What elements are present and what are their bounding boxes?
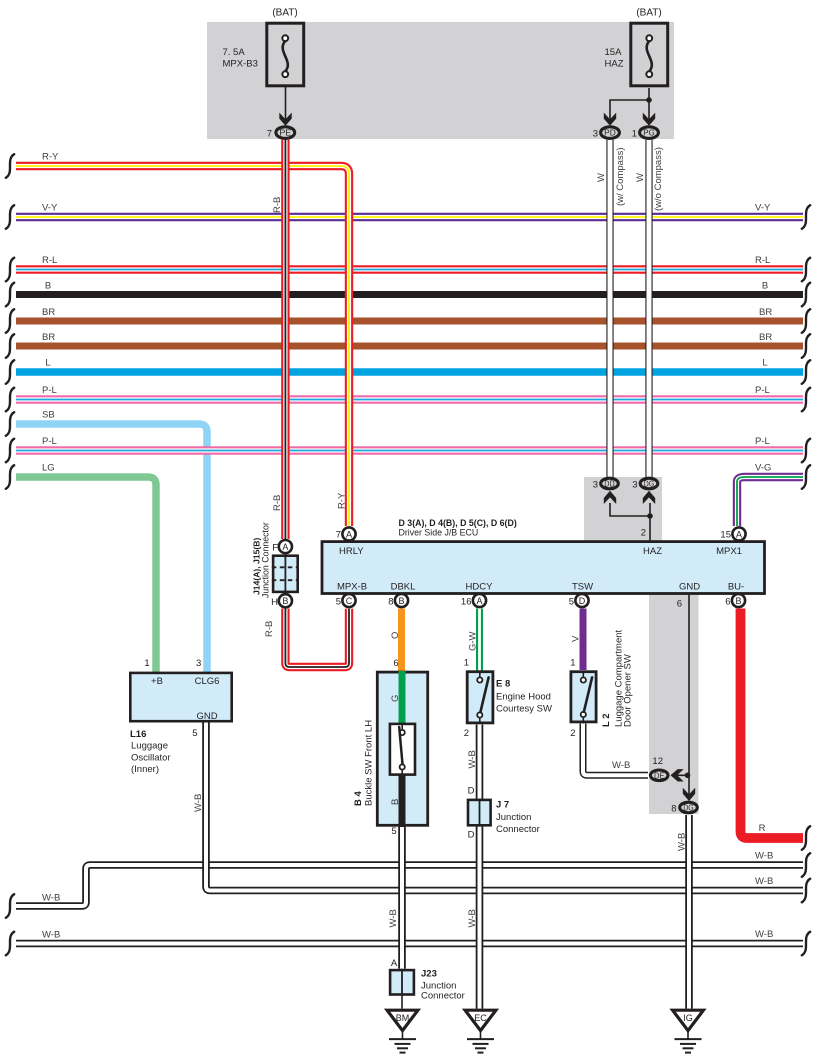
svg-text:(w/o Compass): (w/o Compass) bbox=[653, 147, 664, 211]
svg-text:1: 1 bbox=[632, 129, 637, 140]
svg-text:EC: EC bbox=[474, 1013, 487, 1023]
svg-text:D 3(A), D 4(B), D 5(C), D 6(D): D 3(A), D 4(B), D 5(C), D 6(D) bbox=[399, 518, 517, 528]
component L16 Luggage Oscillator (Inner) bbox=[130, 658, 232, 775]
svg-text:W: W bbox=[596, 173, 607, 182]
svg-text:15: 15 bbox=[720, 530, 731, 541]
svg-text:V: V bbox=[571, 635, 582, 642]
svg-text:C: C bbox=[346, 596, 353, 606]
svg-text:5: 5 bbox=[192, 728, 197, 739]
svg-text:R-Y: R-Y bbox=[337, 492, 348, 509]
svg-text:MPX1: MPX1 bbox=[716, 546, 742, 557]
svg-text:G: G bbox=[390, 695, 401, 702]
svg-text:PG: PG bbox=[643, 129, 655, 138]
svg-text:3: 3 bbox=[196, 658, 201, 669]
ECU pin 5 C (MPX-B) bbox=[336, 594, 356, 608]
wire P-L horizontal 2 bbox=[16, 446, 803, 454]
svg-text:Buckle SW Front LH: Buckle SW Front LH bbox=[364, 720, 375, 806]
svg-text:TSW: TSW bbox=[572, 582, 593, 593]
connector 8 DG bbox=[671, 788, 697, 815]
svg-text:8: 8 bbox=[388, 597, 393, 608]
wire R-Y to ECU pin 7(A) bbox=[16, 166, 349, 526]
wire V from TSW 5(D) to L2 pin 1 bbox=[580, 609, 587, 671]
wire W-B horizontal A (stepped) bbox=[16, 865, 803, 906]
svg-text:V-Y: V-Y bbox=[755, 203, 771, 214]
ECU pin 7 A (HRLY) bbox=[336, 527, 356, 540]
svg-text:BM: BM bbox=[396, 1013, 410, 1023]
svg-text:GND: GND bbox=[679, 582, 700, 593]
svg-text:L16: L16 bbox=[130, 729, 146, 740]
svg-text:A: A bbox=[391, 958, 398, 969]
wire R from BU- 6(B) to right edge bbox=[741, 609, 804, 839]
ground IG bbox=[673, 1010, 704, 1052]
svg-text:G-W: G-W bbox=[468, 631, 479, 651]
svg-text:Connector: Connector bbox=[421, 991, 465, 1002]
svg-text:W-B: W-B bbox=[755, 876, 773, 887]
svg-text:R-L: R-L bbox=[42, 255, 57, 266]
wire LG to L16 pin 1 bbox=[16, 477, 156, 672]
fuse 15A HAZ bbox=[604, 8, 668, 126]
component L2 Luggage Compartment Door Opener SW bbox=[570, 629, 633, 739]
wire R-B vertical from PE to J14 bbox=[281, 140, 289, 539]
wire L horizontal bbox=[16, 368, 803, 376]
svg-text:1: 1 bbox=[144, 658, 149, 669]
ground BM bbox=[387, 1010, 418, 1052]
svg-text:Junction Connector: Junction Connector bbox=[261, 522, 271, 598]
svg-text:R-B: R-B bbox=[264, 621, 275, 637]
svg-text:W-B: W-B bbox=[612, 760, 630, 771]
svg-text:HDCY: HDCY bbox=[466, 582, 494, 593]
svg-text:W-B: W-B bbox=[467, 750, 478, 768]
svg-text:R: R bbox=[759, 823, 766, 834]
J14 pin F A bbox=[272, 540, 292, 554]
svg-text:15A: 15A bbox=[605, 47, 623, 58]
svg-text:W-B: W-B bbox=[42, 893, 60, 904]
svg-text:Junction: Junction bbox=[496, 812, 531, 823]
ECU pin 15 A (MPX1) bbox=[720, 527, 745, 540]
svg-text:LG: LG bbox=[42, 463, 55, 474]
svg-text:(w/ Compass): (w/ Compass) bbox=[615, 147, 626, 206]
svg-text:8: 8 bbox=[671, 804, 676, 815]
svg-text:W-B: W-B bbox=[677, 833, 688, 851]
svg-text:6: 6 bbox=[725, 597, 730, 608]
svg-text:5: 5 bbox=[336, 597, 341, 608]
svg-text:E 8: E 8 bbox=[496, 679, 510, 690]
svg-text:Luggage: Luggage bbox=[131, 741, 168, 752]
svg-text:DBKL: DBKL bbox=[391, 582, 416, 593]
svg-text:H: H bbox=[271, 597, 278, 608]
svg-text:B: B bbox=[282, 596, 288, 606]
wire V-Y horizontal bbox=[16, 213, 803, 221]
svg-text:A: A bbox=[736, 529, 742, 539]
svg-text:5: 5 bbox=[569, 597, 574, 608]
svg-text:7: 7 bbox=[267, 129, 272, 140]
svg-text:B: B bbox=[762, 281, 768, 292]
shade band GND/DE/DG bbox=[649, 593, 699, 814]
svg-text:W-B: W-B bbox=[42, 930, 60, 941]
wire W-B below B4 to J23 bbox=[398, 827, 406, 969]
component E8 Engine Hood Courtesy SW bbox=[464, 658, 552, 740]
svg-text:DD: DD bbox=[604, 480, 614, 489]
wire R-L horizontal bbox=[16, 265, 803, 273]
svg-text:Oscillator: Oscillator bbox=[131, 753, 171, 764]
svg-text:F: F bbox=[272, 543, 278, 554]
svg-text:O: O bbox=[390, 632, 401, 639]
ECU D3(A) D4(B) D5(C) D6(D) Driver Side J/B ECU bbox=[322, 518, 765, 594]
svg-text:W-B: W-B bbox=[193, 794, 204, 812]
svg-text:Courtesy SW: Courtesy SW bbox=[496, 704, 552, 715]
svg-text:DG: DG bbox=[683, 804, 693, 813]
wire W-B horizontal B from L16 GND bbox=[206, 723, 803, 891]
svg-text:P-L: P-L bbox=[42, 385, 57, 396]
junction connector J14(A) J15(B) bbox=[252, 522, 300, 598]
wire break marks left edge bbox=[6, 154, 14, 178]
svg-text:HAZ: HAZ bbox=[643, 546, 662, 557]
svg-text:16: 16 bbox=[461, 597, 472, 608]
wire W-B from E8 through J7 to EC ground bbox=[476, 725, 484, 1009]
svg-text:2: 2 bbox=[641, 528, 646, 539]
wire from J23 to BM ground bbox=[401, 996, 403, 1009]
svg-text:(BAT): (BAT) bbox=[636, 8, 661, 19]
svg-text:B 4: B 4 bbox=[353, 791, 364, 807]
svg-text:P-L: P-L bbox=[755, 385, 770, 396]
ECU pin 16 A (HDCY) bbox=[461, 594, 486, 608]
wire V-G to ECU pin 15(A) bbox=[737, 477, 803, 526]
component B4 Buckle SW Front LH bbox=[353, 658, 428, 837]
svg-text:BR: BR bbox=[42, 307, 55, 318]
wire break marks right edge bbox=[802, 205, 810, 229]
ECU pin 8 B (DBKL) bbox=[388, 594, 408, 608]
svg-text:W-B: W-B bbox=[388, 909, 399, 927]
svg-text:6: 6 bbox=[393, 658, 398, 669]
svg-text:D: D bbox=[579, 596, 586, 606]
svg-text:A: A bbox=[282, 542, 288, 552]
svg-text:1: 1 bbox=[464, 658, 469, 669]
svg-text:3: 3 bbox=[632, 480, 637, 491]
svg-text:(Inner): (Inner) bbox=[131, 764, 159, 775]
wire R-B loop J14(B) to ECU pin 5(C) bbox=[285, 609, 349, 668]
svg-text:V-G: V-G bbox=[755, 463, 771, 474]
svg-text:DG: DG bbox=[644, 480, 654, 489]
J14 pin H B bbox=[271, 594, 292, 608]
svg-text:Connector: Connector bbox=[496, 824, 540, 835]
svg-text:D: D bbox=[468, 830, 475, 841]
svg-text:W-B: W-B bbox=[755, 851, 773, 862]
svg-text:IG: IG bbox=[683, 1013, 693, 1023]
J/B shade band top bbox=[207, 22, 674, 139]
shade band HAZ/DD/DG bbox=[584, 477, 662, 542]
svg-text:L: L bbox=[762, 358, 767, 369]
connector 7 PE bbox=[267, 127, 295, 140]
svg-text:W-B: W-B bbox=[755, 929, 773, 940]
connector 1 PG bbox=[632, 127, 659, 140]
wire B inside B4 bbox=[399, 774, 406, 827]
wire G inside B4 bbox=[399, 671, 406, 724]
svg-text:PE: PE bbox=[280, 129, 292, 138]
svg-text:MPX-B3: MPX-B3 bbox=[223, 59, 258, 70]
wire P-L horizontal 1 bbox=[16, 395, 803, 403]
svg-text:3: 3 bbox=[593, 129, 598, 140]
ground EC bbox=[465, 1010, 496, 1052]
svg-text:L 2: L 2 bbox=[601, 713, 612, 727]
connector 3 PD bbox=[593, 127, 620, 140]
wire O from DBKL 8(B) to B4 pin 6 bbox=[398, 609, 405, 672]
svg-text:(BAT): (BAT) bbox=[272, 8, 297, 19]
svg-text:5: 5 bbox=[391, 826, 396, 837]
svg-text:R-L: R-L bbox=[755, 255, 770, 266]
wire W-B horizontal C bbox=[16, 940, 803, 948]
svg-text:Door Opener SW: Door Opener SW bbox=[623, 654, 634, 727]
svg-text:A: A bbox=[346, 529, 352, 539]
svg-text:P-L: P-L bbox=[755, 436, 770, 447]
junction connector J23 bbox=[390, 958, 465, 1002]
svg-text:2: 2 bbox=[570, 728, 575, 739]
svg-text:B: B bbox=[45, 281, 51, 292]
svg-text:W: W bbox=[635, 173, 646, 182]
svg-text:BR: BR bbox=[759, 332, 772, 343]
HAZ pin 2 junction to DD and DG bbox=[604, 491, 655, 541]
svg-text:Driver Side J/B ECU: Driver Side J/B ECU bbox=[399, 528, 479, 538]
svg-text:HRLY: HRLY bbox=[339, 546, 364, 557]
svg-text:PD: PD bbox=[604, 129, 616, 138]
svg-text:B: B bbox=[398, 596, 404, 606]
svg-text:L: L bbox=[45, 358, 50, 369]
svg-text:BU-: BU- bbox=[728, 582, 744, 593]
wire B (black) horizontal bbox=[16, 291, 803, 298]
svg-text:+B: +B bbox=[151, 676, 163, 687]
svg-text:MPX-B: MPX-B bbox=[337, 582, 367, 593]
B4 switch bbox=[390, 724, 415, 775]
svg-text:BR: BR bbox=[42, 332, 55, 343]
svg-text:J 7: J 7 bbox=[496, 800, 509, 811]
ECU pin 5 D (TSW) bbox=[569, 594, 589, 608]
wire G-W from HDCY 16(A) to E8 pin 1 bbox=[476, 609, 483, 671]
svg-text:GND: GND bbox=[196, 711, 217, 722]
svg-text:7: 7 bbox=[336, 530, 341, 541]
svg-text:V-Y: V-Y bbox=[42, 203, 58, 214]
connector 3 DG bbox=[632, 478, 658, 490]
svg-text:3: 3 bbox=[593, 480, 598, 491]
svg-text:Engine Hood: Engine Hood bbox=[496, 692, 551, 703]
svg-text:R-B: R-B bbox=[272, 495, 283, 511]
wire W-B from L2 pin 2 to DE bbox=[583, 724, 648, 776]
svg-text:2: 2 bbox=[464, 728, 469, 739]
svg-text:R-Y: R-Y bbox=[42, 152, 59, 163]
svg-text:DE: DE bbox=[654, 771, 665, 780]
svg-text:HAZ: HAZ bbox=[605, 59, 624, 70]
svg-text:7. 5A: 7. 5A bbox=[223, 47, 246, 58]
ECU pin 6 B (BU-) bbox=[725, 594, 745, 608]
svg-text:1: 1 bbox=[570, 658, 575, 669]
svg-text:BR: BR bbox=[759, 307, 772, 318]
wire SB to L16 pin 3 bbox=[16, 424, 207, 672]
svg-text:W-B: W-B bbox=[467, 909, 478, 927]
wire W from PD to DD (w/ Compass) bbox=[606, 140, 613, 478]
svg-text:J23: J23 bbox=[421, 969, 437, 980]
svg-text:R-B: R-B bbox=[272, 197, 283, 213]
svg-text:6: 6 bbox=[677, 599, 682, 610]
wire BR horizontal 2 bbox=[16, 343, 803, 350]
svg-text:CLG6: CLG6 bbox=[195, 676, 220, 687]
svg-text:B: B bbox=[390, 799, 401, 805]
connector 12 DE bbox=[650, 756, 690, 782]
wire BR horizontal 1 bbox=[16, 318, 803, 325]
fuse 7.5A MPX-B3 bbox=[223, 8, 304, 126]
junction connector J7 bbox=[468, 786, 540, 841]
connector 3 DD bbox=[593, 478, 619, 490]
svg-text:B: B bbox=[735, 596, 741, 606]
wire W-B below DG to IG ground bbox=[685, 815, 693, 1009]
svg-text:P-L: P-L bbox=[42, 436, 57, 447]
ECU GND pin 6 line bbox=[688, 594, 690, 797]
wire W from PG to DG (w/o Compass) bbox=[645, 140, 652, 478]
svg-text:D: D bbox=[468, 786, 475, 797]
svg-text:12: 12 bbox=[652, 756, 663, 767]
svg-text:A: A bbox=[476, 596, 482, 606]
svg-text:SB: SB bbox=[42, 410, 55, 421]
